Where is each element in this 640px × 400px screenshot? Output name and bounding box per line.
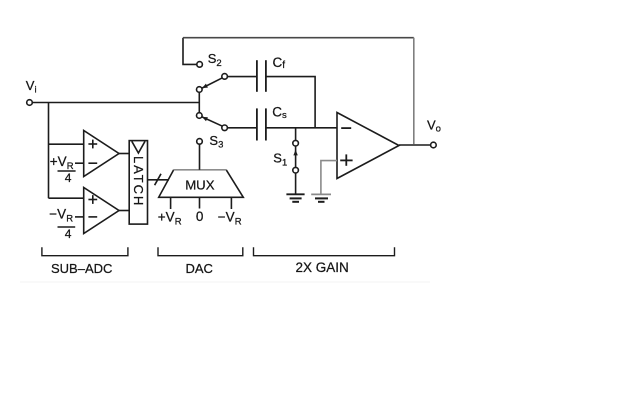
wire mux leg -VR [230,197,232,209]
bracket SUB-ADC [42,247,128,255]
capacitor Cf [257,60,266,92]
wire comparator1 minus input [75,162,84,164]
svg-text:Vo: Vo [427,118,441,135]
svg-text:2X GAIN: 2X GAIN [296,260,349,275]
svg-text:−VR: −VR [49,207,73,225]
wire op-amp output [399,144,431,146]
comparator A1 [84,131,119,177]
op-amp U3 [337,113,399,179]
svg-text:MUX: MUX [185,178,215,193]
bracket DAC [158,247,243,255]
svg-text:+VR: +VR [50,154,74,172]
switch S2 [197,62,228,131]
svg-text:Vi: Vi [26,78,37,96]
label +VR/4 [50,154,76,185]
ground op-amp plus [311,194,331,201]
wire S2 bottom contact to Cs [227,127,257,129]
switch S3 [197,139,203,170]
mux U2 [159,170,244,198]
wire feedback top horizontal [183,37,414,39]
wire Cf output to feedback corner [266,77,315,128]
svg-text:+VR: +VR [158,210,182,228]
bracket 2X GAIN [254,247,395,255]
svg-text:4: 4 [65,227,72,241]
wire feedback right vertical [413,38,415,145]
label -VR/4 [49,207,75,242]
wire S2 top contact to Cf [227,76,257,78]
svg-text:S2: S2 [208,51,222,69]
wire Cs output to op-amp minus [266,127,337,129]
wire main input horizontal [32,102,199,104]
wire op-amp plus to ground [321,161,337,194]
svg-text:S3: S3 [209,133,223,151]
comparator A2 [84,188,119,234]
svg-text:S1: S1 [273,151,287,169]
node Vo terminal [431,142,437,148]
wire mux leg 0 [199,197,201,208]
wire comparator2 plus input [49,197,84,199]
latch U1 [129,141,147,225]
wire comparator2 minus input [75,216,84,218]
faint scan line [20,281,430,283]
svg-text:Cf: Cf [273,55,286,71]
wire comparator1 output [119,153,129,155]
node Vi terminal [27,100,33,106]
svg-text:−VR: −VR [218,210,242,228]
wire comparator1 plus input [49,143,84,145]
wire latch output bus [148,179,170,181]
wire S2 feed from top [183,38,197,65]
svg-text:Cs: Cs [272,105,287,121]
svg-text:4: 4 [65,171,72,185]
svg-text:LATCH: LATCH [131,156,146,207]
svg-text:0: 0 [196,209,204,224]
switch S1 [293,128,299,195]
bus slash [155,174,161,185]
ground S1 [286,194,304,202]
wire sub-adc branch vertical [48,103,50,199]
wire comparator2 output [119,210,129,212]
svg-text:SUB–ADC: SUB–ADC [51,261,112,276]
wire mux leg +VR [170,197,172,209]
capacitor Cs [257,108,266,140]
svg-text:DAC: DAC [186,261,213,276]
